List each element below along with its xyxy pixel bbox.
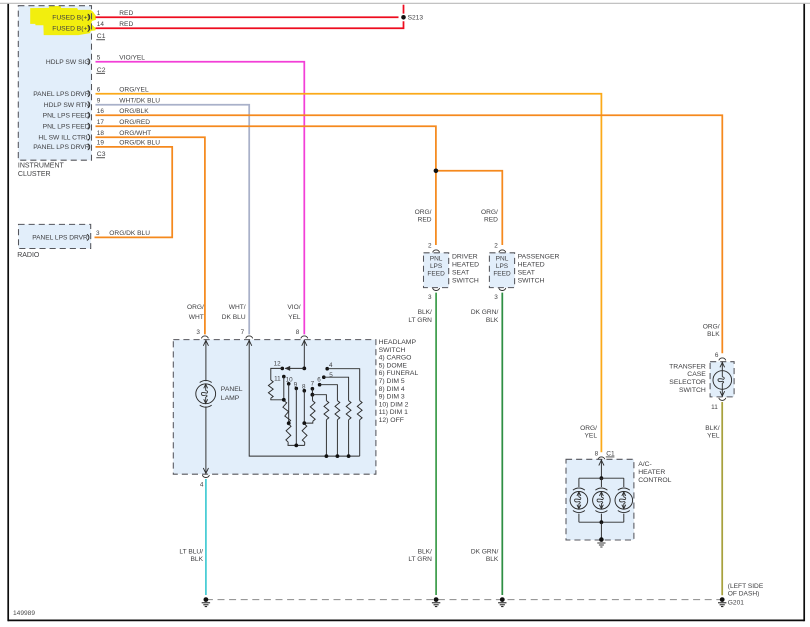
svg-text:HDLP SW SIG: HDLP SW SIG: [46, 59, 90, 66]
svg-text:3: 3: [96, 230, 100, 237]
driver switch pin 2: [433, 250, 440, 253]
ground BLK/LT GRN: [434, 597, 439, 602]
svg-text:PANEL LPS DRVR: PANEL LPS DRVR: [32, 235, 88, 242]
ground G201: [720, 597, 725, 602]
svg-text:8: 8: [302, 383, 306, 390]
A/C bottom rail to internal ground: [579, 521, 624, 523]
svg-text:LT BLU/: LT BLU/: [179, 549, 203, 556]
svg-text:SWITCH: SWITCH: [379, 347, 406, 354]
svg-text:5: 5: [97, 55, 101, 62]
node 9 junction: [294, 444, 298, 448]
svg-text:C3: C3: [97, 151, 106, 158]
svg-text:6: 6: [317, 376, 321, 383]
svg-text:YEL: YEL: [585, 433, 598, 440]
svg-text:BLK: BLK: [486, 556, 499, 563]
svg-text:18: 18: [97, 130, 105, 137]
svg-text:DK GRN/: DK GRN/: [471, 549, 499, 556]
svg-text:HEATED: HEATED: [518, 261, 545, 268]
svg-text:RED: RED: [484, 217, 498, 224]
svg-text:PNL: PNL: [496, 255, 509, 262]
svg-text:C2: C2: [97, 67, 106, 74]
svg-text:RED: RED: [119, 21, 133, 28]
page top gray rule: [0, 2, 810, 4]
transfer case indicator lamp: [721, 362, 723, 371]
resistor contact 8 to node 9: [302, 424, 307, 443]
pin 7 return rail inside switch: [249, 340, 360, 457]
svg-text:(LEFT SIDE: (LEFT SIDE: [728, 583, 764, 590]
svg-text:SWITCH: SWITCH: [452, 277, 479, 284]
illumination lamp right: [623, 478, 625, 487]
svg-text:WHT: WHT: [189, 314, 204, 321]
svg-text:ORG/: ORG/: [415, 209, 432, 216]
svg-text:OF DASH): OF DASH): [728, 590, 760, 597]
passenger switch pin 3: [499, 288, 506, 291]
wire LT BLU/BLK headlamp switch pin 4 to ground: [205, 479, 207, 595]
ground DK GRN/BLK: [500, 597, 505, 602]
svg-text:HDLP SW RTN: HDLP SW RTN: [44, 102, 90, 109]
A/C-heater control box: [566, 459, 634, 540]
wire DK GRN/BLK passenger seat switch to ground: [501, 293, 503, 595]
svg-text:ORG/: ORG/: [580, 425, 597, 432]
contact 11: [282, 375, 286, 379]
svg-text:BLK/: BLK/: [418, 309, 432, 316]
svg-text:11: 11: [274, 376, 281, 383]
wire ORG/RED branch to passenger switch: [436, 171, 502, 245]
svg-text:CASE: CASE: [687, 371, 706, 378]
svg-text:SWITCH: SWITCH: [518, 277, 545, 284]
wiper arm to contact 12: [285, 367, 304, 369]
yellow highlighter mark over FUSED B(+) labels: [30, 6, 96, 35]
svg-text:9: 9: [97, 98, 101, 105]
A/C internal ground: [599, 537, 604, 542]
wire RED pin 1 to S213: [96, 16, 399, 18]
headlamp pin 4: [202, 475, 209, 477]
svg-text:ORG/: ORG/: [703, 323, 720, 330]
wire VIO/YEL pin 5 to headlamp switch pin 8: [96, 62, 305, 335]
diagram border frame right: [803, 4, 805, 621]
svg-text:BLK: BLK: [486, 317, 499, 324]
svg-text:4: 4: [200, 482, 204, 489]
svg-text:PNL LPS FEED: PNL LPS FEED: [43, 123, 90, 130]
svg-text:6: 6: [97, 87, 101, 94]
svg-text:8: 8: [296, 329, 300, 336]
svg-text:BLK/: BLK/: [418, 549, 432, 556]
svg-text:TRANSFER: TRANSFER: [669, 363, 706, 370]
svg-text:11) DIM 1: 11) DIM 1: [379, 409, 409, 416]
wire WHT/DK BLU pin 9 to headlamp switch pin 7: [96, 105, 250, 335]
svg-text:4) CARGO: 4) CARGO: [379, 355, 412, 362]
svg-text:FUSED B(+): FUSED B(+): [52, 14, 89, 21]
svg-text:11: 11: [711, 404, 718, 411]
headlamp switch box: [173, 340, 376, 475]
illumination lamp left: [578, 478, 580, 487]
wire ORG/DK BLU pin 19 to radio: [95, 147, 173, 238]
svg-text:6: 6: [715, 352, 719, 359]
node 10 junction: [287, 421, 291, 425]
svg-text:YEL: YEL: [288, 314, 301, 321]
wire BLK/LT GRN driver seat switch to ground: [435, 293, 437, 595]
svg-text:ORG/: ORG/: [481, 209, 498, 216]
ground bus dashed line: [206, 599, 722, 601]
svg-text:WHT/: WHT/: [229, 304, 246, 311]
wire RED pin 14 to S213: [96, 21, 404, 28]
driver heated seat switch box: [424, 253, 449, 288]
svg-text:149989: 149989: [13, 610, 35, 617]
diagram border frame left: [7, 4, 9, 621]
svg-text:HEATED: HEATED: [452, 261, 479, 268]
svg-text:LPS: LPS: [496, 263, 509, 270]
svg-text:PANEL LPS DRVR: PANEL LPS DRVR: [33, 144, 90, 151]
svg-text:ORG/WHT: ORG/WHT: [119, 130, 151, 137]
svg-text:LPS: LPS: [430, 263, 443, 270]
svg-text:A/C-: A/C-: [638, 461, 652, 468]
svg-text:PNL: PNL: [430, 255, 443, 262]
panel lamp return wire to pin 4: [205, 406, 207, 474]
wire ORG/WHT pin 18 to headlamp switch pin 3: [96, 137, 205, 334]
passenger heated seat switch box: [489, 253, 514, 288]
svg-text:3: 3: [196, 329, 200, 336]
splice on ORG/RED: [434, 169, 439, 174]
svg-text:7: 7: [241, 329, 245, 336]
svg-text:DK GRN/: DK GRN/: [471, 309, 499, 316]
svg-text:YEL: YEL: [707, 433, 720, 440]
svg-text:LAMP: LAMP: [221, 395, 240, 402]
svg-text:RADIO: RADIO: [17, 252, 40, 259]
headlamp pin 3: [201, 336, 208, 339]
pin 8 wiper feed inside switch: [303, 340, 305, 369]
svg-text:INSTRUMENT: INSTRUMENT: [18, 163, 65, 170]
resistor contact 4 to return rail: [327, 369, 360, 401]
illumination lamp middle: [600, 478, 602, 487]
svg-text:17: 17: [97, 119, 105, 126]
svg-text:DK BLU: DK BLU: [222, 314, 246, 321]
radio box: [19, 224, 91, 248]
svg-text:ORG/DK BLU: ORG/DK BLU: [109, 230, 150, 237]
svg-text:VIO/YEL: VIO/YEL: [119, 55, 145, 62]
A/C feed wire and top rail: [600, 459, 602, 478]
svg-text:16: 16: [97, 108, 105, 115]
svg-text:BLK: BLK: [707, 331, 720, 338]
panel lamp feed wire inside switch: [205, 340, 207, 382]
svg-text:VIO/: VIO/: [287, 304, 300, 311]
wire BLK/YEL transfer case switch to ground G201: [721, 402, 723, 595]
wire ORG/RED pin 17 to splice: [96, 126, 436, 245]
contact 6: [318, 383, 322, 387]
svg-text:10: 10: [286, 377, 294, 384]
splice S213: [401, 15, 406, 20]
contact 5: [322, 375, 326, 379]
svg-text:6) FUNERAL: 6) FUNERAL: [379, 370, 419, 377]
svg-text:CONTROL: CONTROL: [638, 477, 671, 484]
passenger switch pin 2: [499, 250, 506, 253]
svg-text:PASSENGER: PASSENGER: [518, 253, 560, 260]
resistor contact 5 to return rail: [324, 377, 349, 400]
svg-text:7) DIM 5: 7) DIM 5: [379, 378, 405, 385]
svg-text:HL SW ILL CTRL: HL SW ILL CTRL: [38, 135, 89, 142]
node 7 junction: [311, 393, 315, 397]
wire RED stub above S213: [403, 5, 405, 14]
svg-text:G201: G201: [728, 600, 744, 607]
svg-text:BLK: BLK: [191, 556, 204, 563]
svg-text:S213: S213: [408, 15, 424, 22]
svg-text:19: 19: [97, 140, 105, 147]
svg-text:LT GRN: LT GRN: [408, 317, 432, 324]
node 11 junction: [282, 398, 286, 402]
svg-text:ORG/DK BLU: ORG/DK BLU: [119, 140, 160, 147]
svg-text:ORG/: ORG/: [187, 304, 204, 311]
svg-text:SEAT: SEAT: [452, 269, 469, 276]
svg-text:FEED: FEED: [493, 271, 511, 278]
resistor contact 10 to 9: [286, 424, 291, 442]
svg-text:HEATER: HEATER: [638, 469, 665, 476]
svg-text:FEED: FEED: [427, 271, 445, 278]
svg-text:RED: RED: [119, 10, 133, 17]
svg-text:BLK/: BLK/: [705, 425, 719, 432]
svg-text:C1: C1: [97, 33, 106, 40]
svg-text:SELECTOR: SELECTOR: [669, 379, 706, 386]
instrument cluster box dashed border: [18, 6, 91, 161]
transfer case pin 11: [719, 398, 726, 401]
svg-text:5: 5: [329, 372, 333, 379]
svg-text:DRIVER: DRIVER: [452, 253, 478, 260]
svg-text:PANEL: PANEL: [221, 386, 243, 393]
svg-text:12: 12: [274, 360, 282, 367]
svg-text:1: 1: [97, 10, 101, 17]
contact 12: [281, 367, 285, 371]
svg-text:14: 14: [97, 21, 105, 28]
svg-text:2: 2: [494, 242, 498, 249]
svg-text:SEAT: SEAT: [518, 269, 535, 276]
svg-text:7: 7: [311, 380, 315, 387]
resistor contact 11 to 10: [283, 401, 291, 423]
node 8 junction: [302, 421, 306, 425]
svg-text:WHT/DK BLU: WHT/DK BLU: [119, 98, 160, 105]
svg-text:8) DIM 4: 8) DIM 4: [379, 386, 405, 393]
svg-text:9: 9: [294, 381, 298, 388]
contact 10: [287, 382, 291, 386]
wiper junction node: [302, 367, 306, 371]
wire ORG/YEL pin 6 to A/C-heater control: [96, 94, 602, 453]
svg-text:CLUSTER: CLUSTER: [18, 171, 51, 178]
diagram border frame bottom: [8, 619, 804, 621]
svg-text:PNL LPS FEED: PNL LPS FEED: [43, 113, 90, 120]
svg-text:10) DIM 2: 10) DIM 2: [379, 401, 409, 408]
contact 8: [303, 389, 307, 393]
svg-text:FUSED B(+): FUSED B(+): [52, 26, 89, 33]
resistor contact 7 to contact 8: [311, 395, 313, 401]
instrument cluster box fill: [18, 6, 91, 161]
svg-text:ORG/BLK: ORG/BLK: [119, 108, 149, 115]
svg-text:ORG/YEL: ORG/YEL: [119, 87, 149, 94]
svg-text:3: 3: [428, 294, 432, 301]
svg-text:SWITCH: SWITCH: [679, 387, 706, 394]
svg-text:RED: RED: [418, 217, 432, 224]
svg-text:3: 3: [494, 294, 498, 301]
contact 9: [295, 387, 299, 391]
svg-text:4: 4: [329, 362, 333, 369]
panel lamp: [200, 380, 212, 382]
headlamp pin 7: [246, 336, 253, 339]
svg-text:PANEL LPS DRVR: PANEL LPS DRVR: [33, 91, 90, 98]
svg-text:9) DIM 3: 9) DIM 3: [379, 394, 405, 401]
svg-text:LT GRN: LT GRN: [408, 556, 432, 563]
ground LT BLU/BLK: [204, 597, 209, 602]
contact 7: [311, 387, 315, 391]
svg-text:HEADLAMP: HEADLAMP: [379, 339, 417, 346]
resistor contact 6 to return rail: [320, 385, 338, 401]
wire ORG/BLK pin 16 to transfer case switch: [96, 115, 723, 353]
driver switch pin 3: [433, 288, 440, 291]
svg-text:C1: C1: [606, 450, 615, 457]
svg-text:2: 2: [428, 242, 432, 249]
resistor contact 7 to return rail: [312, 395, 326, 401]
transfer case selector switch box: [710, 362, 734, 397]
contact 4: [325, 367, 329, 371]
svg-text:ORG/RED: ORG/RED: [119, 119, 150, 126]
headlamp pin 8: [301, 336, 308, 339]
svg-text:5) DOME: 5) DOME: [379, 362, 408, 369]
svg-text:12) OFF: 12) OFF: [379, 417, 404, 424]
svg-text:8: 8: [595, 450, 599, 457]
resistor contact 12 to 11: [271, 368, 283, 380]
